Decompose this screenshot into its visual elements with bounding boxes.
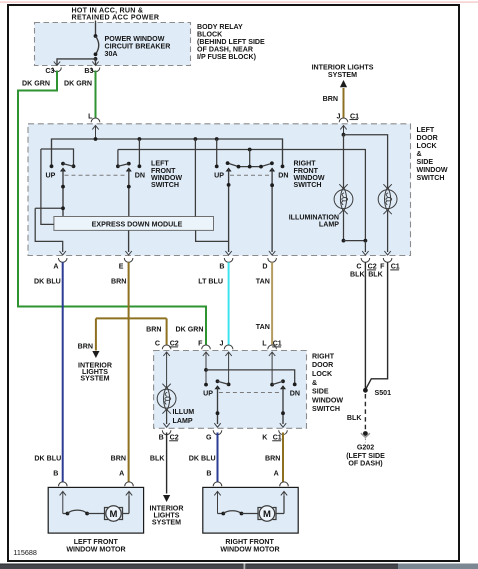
svg-text:BRN: BRN [323,95,338,103]
svg-text:C: C [356,263,361,271]
svg-text:I/P FUSE BLOCK): I/P FUSE BLOCK) [197,53,257,61]
ground bracket line inside left box [118,150,366,241]
svg-text:&: & [417,150,422,158]
label RIGHT FRONT WINDOW SWITCH [294,160,325,190]
label HOT IN ACC RUN & RETAINED ACC POWER [72,7,160,22]
pink top rule [0,2,478,3]
svg-text:BLK: BLK [347,414,362,422]
right motor M symbol [258,496,284,521]
svg-text:C3: C3 [45,67,54,75]
svg-text:30A: 30A [105,50,118,58]
right door switch internal wiring [204,368,297,387]
svg-text:C1: C1 [350,112,359,120]
svg-text:WINDOW: WINDOW [312,396,343,404]
svg-text:C2: C2 [170,434,179,442]
wire DK BLU G to right motor [217,433,219,483]
svg-text:A: A [119,470,124,478]
wire EDM to E connector [128,230,130,252]
svg-text:B: B [219,263,224,271]
svg-text:UP: UP [46,172,56,180]
svg-text:SYSTEM: SYSTEM [152,518,181,526]
svg-text:SYSTEM: SYSTEM [328,71,357,79]
connector J arc [339,118,348,122]
label INTERIOR LIGHTS SYSTEM bottom [150,504,184,526]
svg-text:S501: S501 [375,389,392,397]
wire BRN to interior lights [343,88,345,119]
svg-text:L: L [262,340,267,348]
svg-text:SYSTEM: SYSTEM [80,375,109,383]
entry arrow at J [340,126,346,135]
wire BLK dashed to ground [364,394,366,430]
connector arcs bottom of right door box [162,430,287,434]
svg-text:C2: C2 [170,340,179,348]
svg-text:A: A [274,470,279,478]
mechanical link dashes left switch [65,174,128,176]
entry arrows top of right door box [163,352,275,389]
label INTERIOR LIGHTS SYSTEM middle [78,361,112,382]
svg-text:SIDE: SIDE [312,388,329,396]
svg-text:K: K [262,434,268,442]
svg-text:OF DASH): OF DASH) [348,460,383,468]
svg-text:J: J [220,340,224,348]
mechanical link dashes right door [219,392,282,394]
svg-text:C1: C1 [391,263,400,271]
svg-text:F: F [380,263,385,271]
wire LT BLU B to J [228,262,230,345]
arrow down at C3 [54,59,60,66]
svg-text:DOOR: DOOR [417,134,438,142]
wire breaker to C3 [57,59,96,64]
svg-text:DN: DN [278,172,288,180]
label G202 LEFT SIDE OF DASH [346,443,385,467]
exit arrows at bottom of left box [60,251,391,255]
svg-text:WINDOW MOTOR: WINDOW MOTOR [220,546,279,554]
illumination lamp right [378,184,397,252]
label RIGHT DOOR LOCK & SIDE WINDOW SWITCH [312,352,343,413]
illumination lamp feed wires [342,133,388,189]
connector B3 arc [91,68,100,72]
wire TAN D to L [271,262,273,345]
svg-text:D: D [262,263,267,271]
svg-text:DN: DN [135,172,145,180]
svg-text:WINDOW MOTOR: WINDOW MOTOR [66,546,125,554]
wire DK GRN from B3 to L [95,71,97,119]
svg-text:BRN: BRN [111,277,126,285]
label LEFT FRONT WINDOW MOTOR [66,538,125,554]
ground G202 [361,431,370,442]
svg-text:BRN: BRN [265,455,280,463]
label LEFT FRONT WINDOW SWITCH [151,160,182,190]
splice S501 [363,388,391,397]
label BODY RELAY BLOCK [197,23,265,61]
right front window motor box [203,487,298,533]
connector arcs above right motor [213,482,288,486]
entry arrow at L [92,126,98,140]
connector arcs bottom of left box [58,258,392,262]
wire EDM to B join [196,230,229,241]
connector labels bottom of left box [53,263,385,271]
svg-text:LOCK: LOCK [312,370,333,378]
illumination lamp left [334,184,353,240]
wire DK BLU A to left motor [62,262,64,482]
body relay block (circuit breaker) box [35,23,191,66]
wire BLK C to S501 [364,262,366,390]
svg-text:RETAINED ACC POWER: RETAINED ACC POWER [72,14,160,22]
wire breaker to B3 [95,59,97,64]
svg-text:SWITCH: SWITCH [312,405,340,413]
bus junction dots [94,137,219,141]
svg-text:BRN: BRN [78,342,93,350]
wire BRN K to right motor [282,433,284,483]
wire color labels below left box [34,271,384,286]
label C2 underlined [367,263,377,271]
svg-text:DK BLU: DK BLU [34,455,61,463]
connector arcs top of right door box [162,345,276,349]
svg-text:DOOR: DOOR [312,361,333,369]
label C2 below right box underlined [169,434,179,442]
svg-text:115688: 115688 [13,548,36,557]
svg-text:TAN: TAN [256,323,270,331]
connector C3 arc [53,68,62,72]
arrow interior lights bottom [163,495,170,502]
left motor entry arrows [60,491,133,513]
svg-text:DK BLU: DK BLU [189,455,216,463]
circuit breaker CB symbol [94,34,99,61]
left front window motor box [48,487,143,533]
wire BRN E down with branches [96,262,167,482]
svg-text:SWITCH: SWITCH [294,181,322,189]
svg-text:A: A [53,263,58,271]
right front window switch rocker [215,139,285,252]
label RIGHT FRONT WINDOW MOTOR [220,538,279,554]
svg-text:DK GRN: DK GRN [64,79,92,87]
connector L arc [91,118,100,122]
wire feed into breaker [95,21,97,37]
label POWER WINDOW CIRCUIT BREAKER 30A [105,35,171,58]
label C1 below right box underlined [272,434,282,442]
main bus wire [52,139,283,166]
svg-text:WINDOW: WINDOW [417,166,448,174]
svg-text:EXPRESS DOWN MODULE: EXPRESS DOWN MODULE [92,220,183,228]
label ILLUMINATION LAMP [289,213,340,228]
right door DN rocker [272,379,286,424]
left door lock and side window switch box [28,124,411,256]
wire bus into EDM top [194,139,196,217]
svg-text:LT BLU: LT BLU [198,277,223,285]
bottom taskbar [0,564,478,569]
svg-text:UP: UP [203,389,213,397]
label LEFT DOOR LOCK & SIDE WINDOW SWITCH [417,126,448,182]
svg-text:B: B [206,470,211,478]
svg-text:DK BLU: DK BLU [34,277,61,285]
connector labels bottom of right door box [159,434,269,442]
right door UP rocker [215,379,229,424]
wire DK GRN from C3 long route to right door F [18,71,206,346]
svg-text:G202: G202 [357,443,374,451]
svg-text:LEFT: LEFT [417,126,435,134]
dot on bracket at rocker center feed [248,148,252,152]
svg-text:&: & [312,379,317,387]
right door lock and side window switch box [154,351,307,429]
svg-text:LAMP: LAMP [319,221,339,229]
svg-text:SWITCH: SWITCH [417,174,445,182]
svg-text:C1: C1 [273,434,282,442]
lamp ground junction wires [342,239,368,252]
svg-text:BRN: BRN [111,455,126,463]
svg-text:SIDE: SIDE [417,158,434,166]
wire BLK F to S501 [366,262,388,389]
labels above right door box [155,340,267,348]
express down module box [54,217,214,231]
svg-text:UP: UP [214,172,224,180]
right door illumination lamp [157,384,176,424]
label C2 above right box underlined [169,340,179,348]
right motor internal contact arc [218,511,259,516]
exit arrows bottom of right door box [163,423,286,427]
svg-text:E: E [119,263,124,271]
left front window switch DN section [116,139,141,217]
svg-text:BLK: BLK [368,271,383,279]
arrow interior lights middle [92,351,99,358]
svg-text:M: M [110,509,118,520]
svg-text:SWITCH: SWITCH [151,181,179,189]
svg-text:LAMP: LAMP [173,417,193,425]
svg-text:BLK: BLK [150,455,165,463]
svg-text:C1: C1 [273,340,282,348]
wire BLK right door B to interior lights [166,433,168,494]
svg-text:C2: C2 [368,263,377,271]
arrow up to interior lights [340,80,347,87]
left motor internal contact arc [63,510,105,515]
svg-text:G: G [206,434,212,442]
svg-text:B3: B3 [84,67,93,75]
svg-text:B: B [159,434,164,442]
label ILLUM LAMP [173,408,195,425]
svg-text:BLK: BLK [350,271,365,279]
svg-text:LOCK: LOCK [417,142,438,150]
svg-text:DK GRN: DK GRN [176,326,204,334]
wire bracket into EDM left edge [41,149,54,224]
right motor entry arrows [214,491,287,513]
label INTERIOR LIGHTS SYSTEM top right [312,64,374,79]
wire UP output junction to A [35,206,65,252]
svg-text:DK GRN: DK GRN [22,79,50,87]
svg-text:TAN: TAN [256,277,270,285]
svg-text:ILLUM: ILLUM [173,408,195,416]
left motor M symbol [105,496,130,521]
label C1 above right box underlined [272,340,282,348]
mechanical link dashes rocker [230,174,271,176]
svg-text:B: B [53,470,58,478]
label C1 underlined [390,263,400,271]
left front window switch UP section [41,149,76,217]
connector arcs above left motor [59,482,134,486]
svg-text:C: C [155,340,160,348]
svg-text:M: M [263,509,271,520]
svg-text:DN: DN [290,389,300,397]
label C1 underlined [350,112,360,120]
arrow down at B3 [92,59,98,66]
svg-text:RIGHT: RIGHT [312,352,335,360]
svg-text:BRN: BRN [146,326,161,334]
